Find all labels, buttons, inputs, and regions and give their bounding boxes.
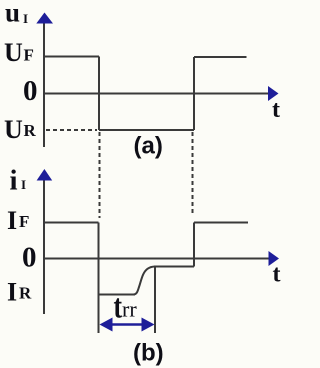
waveform u: falling edge (98, 57, 100, 131)
waveform u: U_F segment 1 (44, 56, 99, 58)
waveform u: U_R segment (99, 129, 194, 131)
svg-text:I: I (7, 206, 17, 235)
svg-text:0: 0 (23, 75, 38, 107)
waveform i: rising edge (193, 223, 195, 267)
svg-text:(a): (a) (134, 133, 163, 160)
svg-text:i: i (10, 165, 18, 197)
svg-text:I: I (23, 11, 28, 26)
svg-text:F: F (24, 46, 34, 65)
dashed vertical at falling edge (99, 132, 101, 218)
waveform i: I_R segment (99, 294, 136, 296)
t_rr right boundary (154, 267, 156, 334)
time axis (b) (44, 258, 269, 260)
svg-text:t: t (272, 97, 280, 123)
svg-text:t: t (273, 262, 281, 288)
waveform u: rising edge (193, 57, 195, 130)
waveform i: I_F segment 1 (44, 222, 99, 224)
waveform i: recovery curve (134, 267, 156, 295)
vertical axis (b) (43, 177, 45, 314)
svg-text:R: R (24, 121, 37, 140)
svg-text:I: I (21, 177, 26, 192)
axis arrow up (b) (37, 169, 53, 181)
svg-text:(b): (b) (133, 340, 164, 367)
svg-text:I: I (7, 278, 17, 307)
vertical axis (a) (43, 20, 45, 147)
waveform i: I_F segment 2 (194, 222, 248, 224)
svg-text:U: U (4, 38, 23, 67)
svg-text:F: F (19, 212, 29, 231)
waveform i: recovered level segment (154, 266, 194, 268)
waveform i: falling edge / t_rr left boundary (98, 223, 100, 334)
t_rr measure arrow (100, 318, 155, 332)
svg-text:U: U (4, 115, 23, 144)
axis arrow right (b) (269, 251, 280, 266)
waveform u: U_F segment 2 (194, 56, 247, 58)
axis arrow up (a) (36, 13, 53, 24)
dashed vertical at rising edge (192, 132, 194, 216)
time axis (a) (44, 93, 269, 95)
svg-text:u: u (5, 0, 20, 28)
svg-text:0: 0 (22, 242, 37, 274)
svg-text:R: R (19, 284, 32, 303)
axis arrow right (a) (268, 86, 279, 101)
svg-text:rr: rr (122, 297, 137, 322)
U_R dashed level line (46, 129, 97, 131)
